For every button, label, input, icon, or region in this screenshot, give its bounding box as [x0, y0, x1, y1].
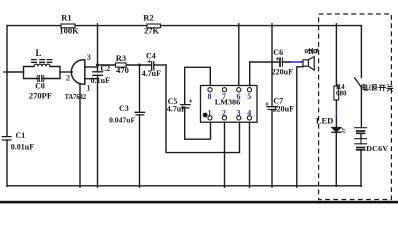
- wire C4 to LM386 pin3: [166, 65, 240, 153]
- svg-text:C1: C1: [16, 131, 26, 140]
- wire pin4 ground: [249, 122, 251, 187]
- wire pin1 stub: [85, 78, 98, 80]
- wire switch branch: [360, 26, 362, 78]
- capacitor C2 plates: [93, 72, 103, 76]
- wire battery segments: [360, 133, 362, 186]
- wire left rail: [6, 26, 8, 187]
- label power switch CJK 电源开关: [361, 84, 393, 92]
- capacitor C3 branch wire: [139, 65, 141, 187]
- capacitor C0 curve mark: [37, 75, 44, 81]
- svg-text:DC6V: DC6V: [366, 144, 388, 153]
- inductor L coil arcs: [34, 64, 50, 66]
- LED bar: [332, 131, 341, 133]
- wire R3 run: [98, 64, 152, 66]
- capacitor C0 plates: [39, 76, 42, 82]
- wire R4 branch top: [335, 24, 337, 86]
- bottom border rule: [0, 201, 398, 204]
- svg-text:8: 8: [208, 92, 212, 101]
- svg-text:220uF: 220uF: [273, 105, 294, 114]
- svg-text:C6: C6: [273, 48, 283, 57]
- pin 4 circle: [247, 116, 251, 120]
- capacitor C7 plates: [267, 107, 277, 110]
- pin 5 circle: [247, 88, 251, 92]
- wire bottom ground bus: [7, 185, 362, 187]
- svg-text:TA7642: TA7642: [65, 92, 87, 101]
- pin 8 circle: [208, 88, 212, 92]
- svg-text:R3: R3: [116, 53, 126, 63]
- wire pin6 supply: [238, 24, 240, 86]
- capacitor C3 plates: [135, 112, 145, 115]
- svg-text:2: 2: [222, 109, 226, 118]
- capacitor C4 plates: [152, 62, 154, 70]
- wire tank feed: [7, 71, 24, 73]
- svg-text:3: 3: [237, 109, 241, 118]
- svg-text:1: 1: [208, 109, 212, 118]
- capacitor C5 plates: [181, 105, 190, 108]
- svg-text:3: 3: [87, 52, 91, 62]
- wire C5 to pin1: [185, 108, 211, 139]
- pin 7 circle: [222, 88, 226, 92]
- capacitor C1 plates: [2, 137, 12, 140]
- svg-text:5: 5: [247, 92, 251, 101]
- switch lever: [355, 78, 362, 88]
- wire top rail: [7, 25, 362, 27]
- wire tank to TA7642: [60, 71, 72, 73]
- capacitor C5 plus mark: [190, 100, 192, 102]
- svg-text:0.047uF: 0.047uF: [109, 116, 135, 125]
- wire battery mid tick: [360, 139, 362, 144]
- resistor R3: [116, 63, 127, 67]
- speaker cone: [308, 57, 314, 71]
- wire pin3 stub: [85, 66, 98, 68]
- LED light marks: [342, 129, 345, 133]
- svg-text:0.01uF: 0.01uF: [11, 142, 34, 151]
- svg-text:100K: 100K: [59, 26, 79, 36]
- node C3 junction dot: [138, 64, 141, 67]
- wire mid rail: [97, 24, 99, 187]
- capacitor C7 branch wire: [271, 24, 273, 187]
- pin 1 circle: [208, 116, 212, 120]
- resistor R4: [334, 86, 339, 100]
- wire LED to bus: [335, 132, 337, 186]
- pin 2 circle: [222, 116, 226, 120]
- label speaker CJK 喇叭: [305, 48, 318, 54]
- capacitor C4 plus mark: [148, 60, 150, 62]
- svg-text:L: L: [35, 48, 41, 58]
- LED triangle: [332, 127, 341, 132]
- speaker body: [303, 60, 308, 66]
- svg-text:2: 2: [66, 73, 70, 83]
- wire C4 to corner: [154, 64, 166, 66]
- wire TA7642 ground drop: [79, 84, 81, 188]
- capacitor C6 plates: [279, 58, 281, 66]
- pin 1 dot: [203, 113, 208, 118]
- svg-text:680: 680: [336, 89, 347, 97]
- svg-text:270PF: 270PF: [29, 90, 52, 100]
- svg-text:0.1uF: 0.1uF: [91, 76, 110, 85]
- wire blue segment: [290, 61, 300, 63]
- svg-text:R1: R1: [61, 13, 71, 23]
- battery B1 plates: [355, 128, 367, 144]
- pin 3 circle: [237, 116, 241, 120]
- wire R4 to LED: [335, 100, 337, 127]
- svg-text:C2: C2: [100, 64, 110, 73]
- svg-text:6: 6: [237, 92, 241, 101]
- op-amp TA7642 body: [71, 60, 83, 84]
- wire pin2 ground: [224, 122, 226, 187]
- svg-text:220uF: 220uF: [272, 68, 293, 77]
- svg-text:7: 7: [222, 92, 226, 101]
- wire pin5 output: [250, 62, 280, 86]
- inductor L loop frame: [24, 67, 61, 79]
- svg-text:27K: 27K: [144, 26, 160, 36]
- svg-text:R2: R2: [143, 13, 153, 23]
- wire LED blue segment: [335, 110, 337, 116]
- IC LM386 box: [201, 86, 258, 123]
- svg-text:470: 470: [116, 65, 129, 75]
- wire C6 to speaker black: [282, 61, 303, 63]
- wire speaker ground: [297, 67, 303, 187]
- svg-text:C3: C3: [119, 104, 129, 113]
- inductor L core dashes: [32, 60, 52, 63]
- svg-text:4: 4: [247, 109, 251, 118]
- wire C5 staple pin8: [185, 67, 211, 104]
- capacitor C7 plus mark: [266, 103, 268, 105]
- node tank-to-left-rail junction: [4, 71, 8, 73]
- wire switch to battery: [360, 88, 362, 128]
- pin 6 circle: [237, 88, 241, 92]
- capacitor C6 plus mark: [276, 58, 278, 60]
- node R3 junction dot: [96, 64, 99, 67]
- svg-text:4.7uF: 4.7uF: [142, 69, 161, 78]
- svg-text:4.7uF: 4.7uF: [167, 105, 186, 114]
- svg-text:C0: C0: [35, 82, 45, 91]
- resistor R1: [61, 24, 75, 28]
- dashed enclosure box: [319, 14, 392, 200]
- svg-text:LED: LED: [316, 116, 333, 126]
- svg-text:C4: C4: [146, 51, 156, 60]
- resistor R2: [147, 24, 160, 28]
